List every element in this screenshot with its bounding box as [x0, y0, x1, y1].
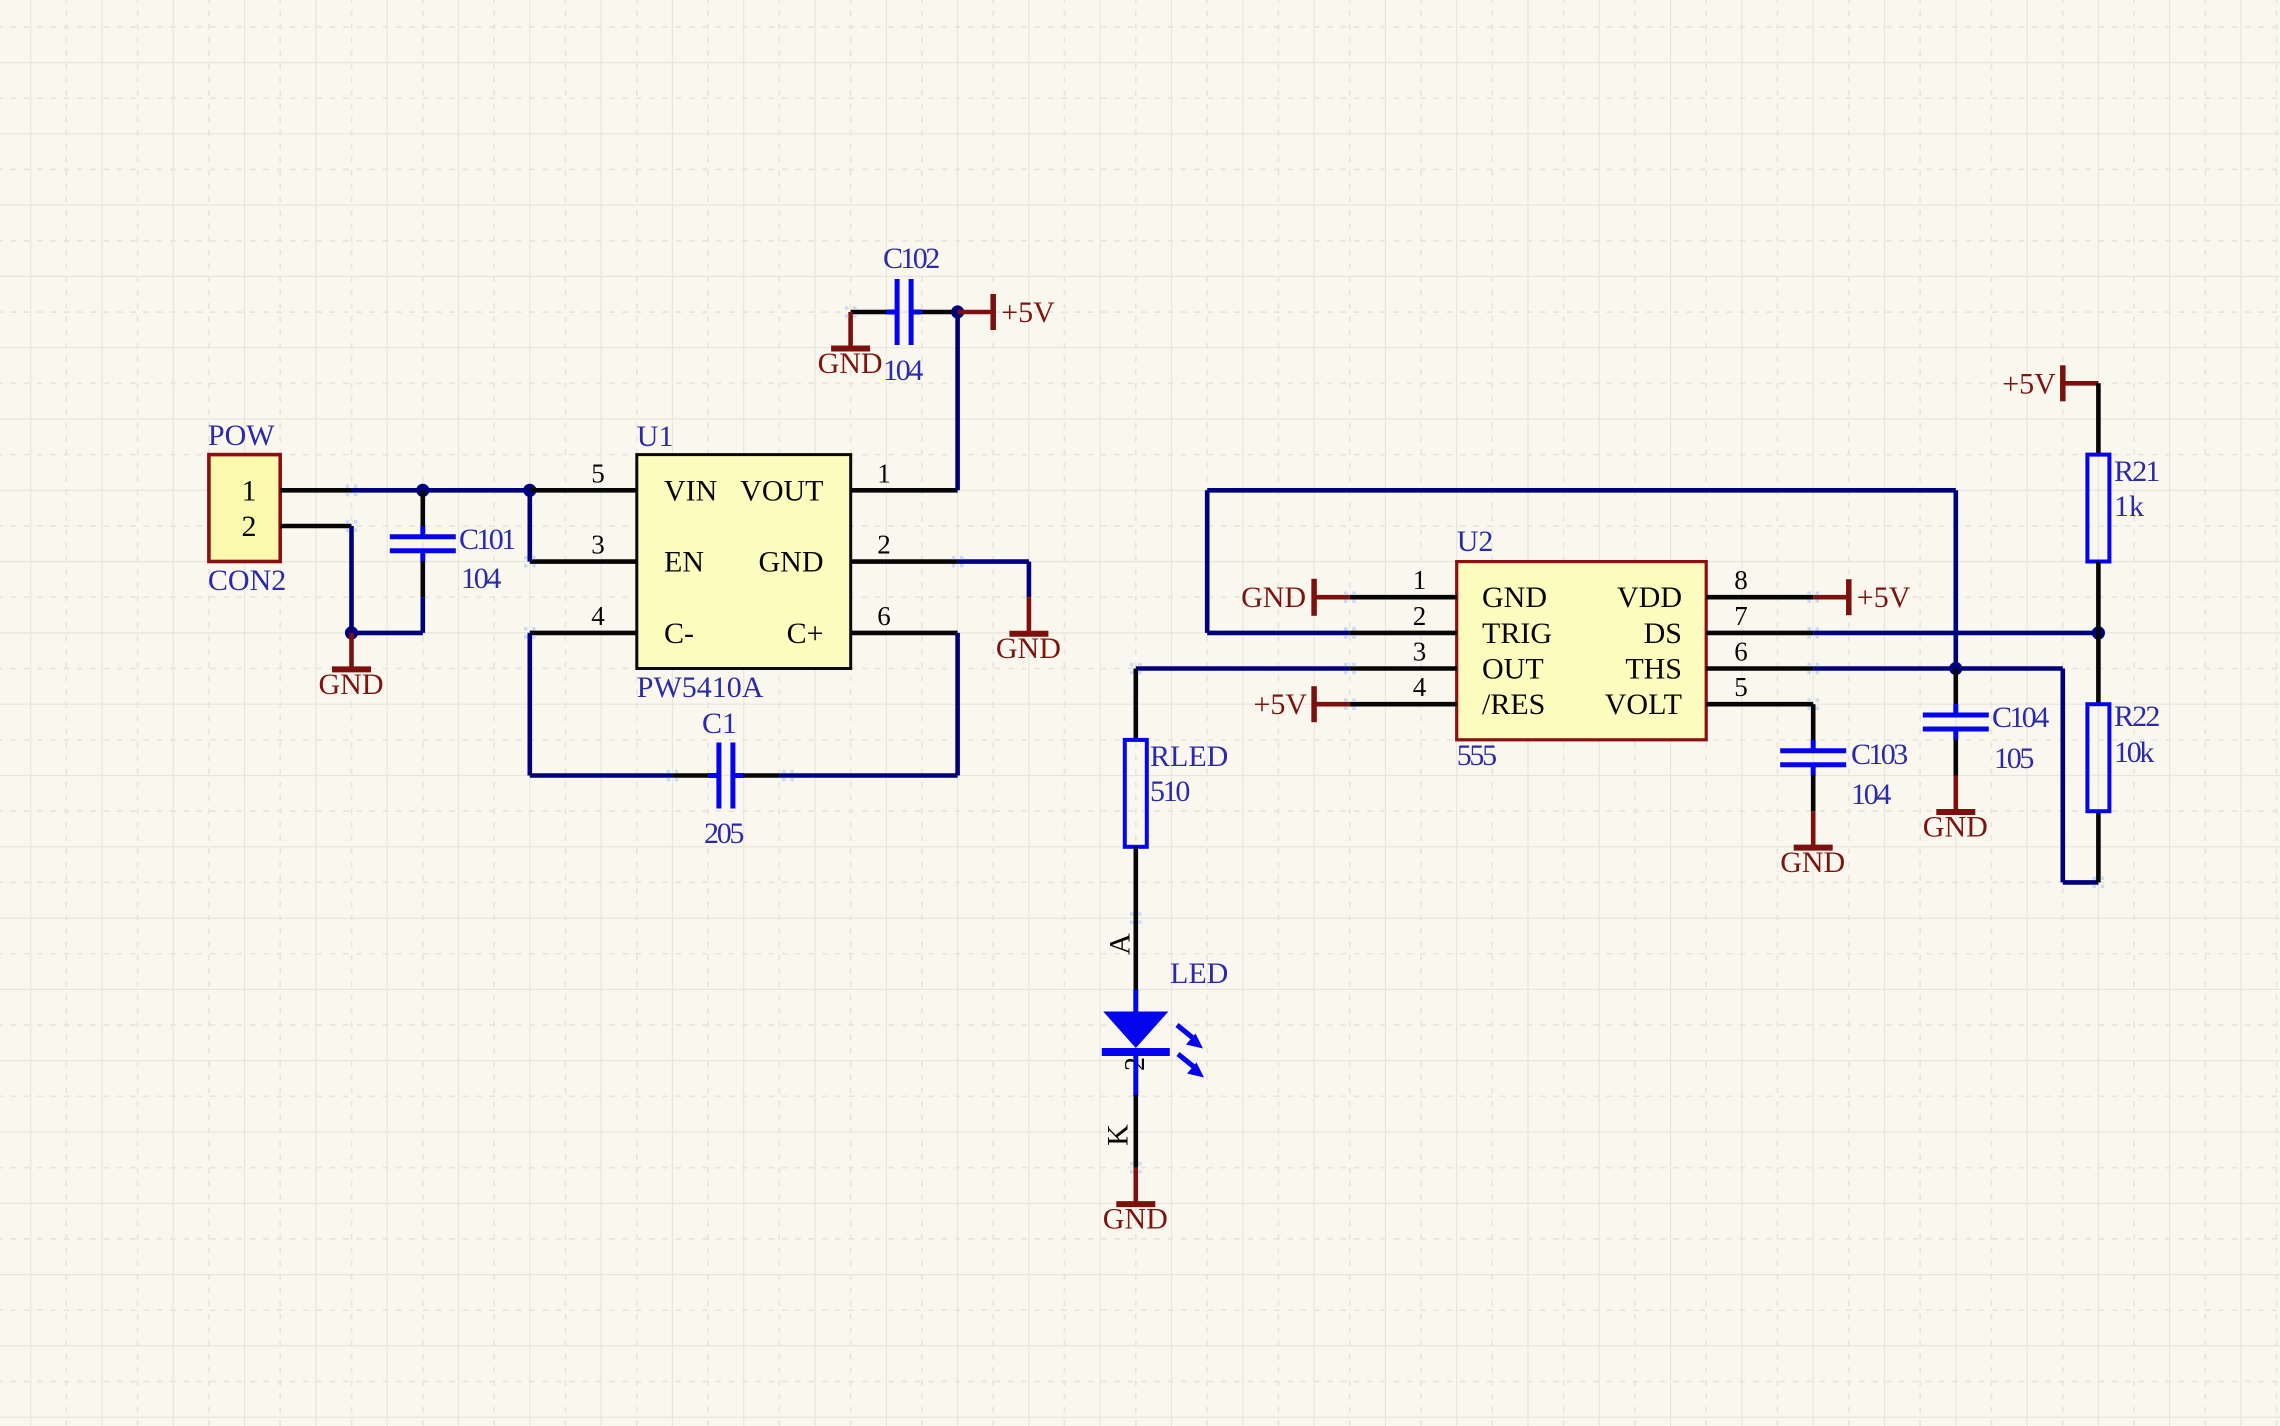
- svg-text:1k: 1k: [2114, 490, 2144, 523]
- resistor R22 body: [2087, 704, 2109, 811]
- LED light arrow 2: [1178, 1054, 1204, 1078]
- wire OUT elbow down to RLED: [1134, 669, 1139, 740]
- capacitor C102 right lead: [922, 310, 958, 315]
- svg-text:104: 104: [461, 562, 501, 595]
- wire LED cathode to GND: [1134, 1095, 1139, 1168]
- svg-text:1: 1: [877, 458, 891, 488]
- wire C1 left navy: [530, 773, 673, 778]
- capacitor C101 bottom lead: [420, 561, 425, 597]
- svg-text:K: K: [1102, 1124, 1135, 1146]
- LED cathode lead: [1133, 1056, 1138, 1096]
- svg-text:6: 6: [877, 601, 891, 631]
- svg-text:LED: LED: [1170, 957, 1228, 990]
- capacitor C102 left lead: [851, 310, 887, 315]
- wire EN vertical from VIN net: [527, 490, 532, 561]
- wire THS vertical down: [2061, 669, 2066, 883]
- node junction VOUT +5V: [951, 305, 964, 318]
- svg-text:104: 104: [1851, 778, 1891, 811]
- svg-text:VDD: VDD: [1617, 581, 1682, 614]
- wire THS horizontal: [1813, 666, 2063, 671]
- wire TRIG loop vertical left: [1205, 490, 1210, 633]
- svg-text:GND: GND: [759, 546, 824, 579]
- U2 pin 2 stub: [1350, 631, 1457, 636]
- U2 pin 8 stub: [1706, 595, 1813, 600]
- capacitor C104 plates: [1923, 704, 1989, 740]
- U1 pin 3 stub: [530, 559, 637, 564]
- svg-text:6: 6: [1734, 637, 1748, 667]
- capacitor C104 top lead: [1954, 669, 1959, 705]
- U1 pin 5 stub: [530, 488, 637, 493]
- wire TRIG horizontal to U2: [1207, 631, 1350, 636]
- svg-text:POW: POW: [208, 419, 275, 452]
- svg-text:C102: C102: [883, 242, 939, 275]
- svg-text:A: A: [1104, 933, 1137, 955]
- svg-text:CON2: CON2: [208, 564, 286, 597]
- node junction at GND net: [345, 626, 358, 639]
- U2 pin 1 stub: [1350, 595, 1457, 600]
- svg-text:RLED: RLED: [1150, 740, 1228, 773]
- svg-text:R22: R22: [2114, 700, 2159, 733]
- wire VOUT vertical: [955, 312, 960, 490]
- svg-text:2: 2: [877, 530, 891, 560]
- svg-text:205: 205: [704, 817, 743, 850]
- capacitor C102 plates: [886, 279, 922, 345]
- svg-text:8: 8: [1734, 565, 1748, 595]
- LED anode lead: [1133, 989, 1138, 1013]
- U2 pin 5 stub: [1706, 702, 1813, 707]
- capacitor C101 plates: [390, 526, 456, 562]
- wire C- vertical: [527, 633, 532, 776]
- wire POW pin2 down: [349, 526, 354, 633]
- svg-text:2: 2: [242, 510, 257, 543]
- wire THS bottom horizontal: [2063, 880, 2099, 885]
- svg-text:GND: GND: [818, 347, 883, 380]
- wire R22 bottom lead: [2096, 811, 2101, 882]
- svg-text:GND: GND: [319, 668, 384, 701]
- svg-text:510: 510: [1150, 775, 1189, 808]
- ground symbol below LED: [1103, 1168, 1168, 1236]
- svg-text:3: 3: [591, 530, 605, 560]
- svg-text:5: 5: [591, 458, 605, 488]
- wire C+ vertical: [955, 633, 960, 776]
- LED triangle: [1103, 1012, 1168, 1049]
- svg-text:105: 105: [1994, 742, 2033, 775]
- wire R21 top lead: [2096, 383, 2101, 454]
- svg-text:C104: C104: [1992, 701, 2049, 734]
- power +5V at U2 pin8: [1813, 579, 1911, 615]
- U1 pin 6 stub: [851, 631, 958, 636]
- svg-text:C1: C1: [702, 707, 737, 740]
- svg-text:GND: GND: [1241, 581, 1306, 614]
- wire U1 pin2 elbow down: [1027, 562, 1032, 598]
- wire TRIG loop horizontal top: [1207, 488, 1956, 493]
- capacitor C103 plates: [1780, 740, 1846, 776]
- wire RLED to LED anode: [1134, 847, 1139, 991]
- capacitor C103 bottom lead: [1811, 775, 1816, 811]
- ground symbol at U2 pin1: [1241, 579, 1350, 616]
- svg-text:7: 7: [1734, 601, 1748, 631]
- svg-text:3: 3: [1413, 637, 1427, 667]
- svg-text:/RES: /RES: [1482, 688, 1545, 721]
- svg-text:U1: U1: [637, 420, 674, 453]
- U1 pin 2 stub: [851, 559, 958, 564]
- wire TRIG loop vertical right: [1954, 490, 1959, 668]
- svg-text:10k: 10k: [2114, 736, 2154, 769]
- svg-text:PW5410A: PW5410A: [637, 671, 764, 704]
- svg-text:+5V: +5V: [1857, 581, 1911, 614]
- U1 pin 4 stub: [530, 631, 637, 636]
- svg-text:VOUT: VOUT: [740, 474, 823, 507]
- connector POW pin 1 stub: [280, 488, 351, 493]
- ground symbol below POW: [319, 633, 384, 701]
- svg-text:2: 2: [1413, 601, 1427, 631]
- wire R22 top lead: [2096, 633, 2101, 704]
- svg-text:R21: R21: [2114, 455, 2159, 488]
- capacitor C1 left lead: [672, 773, 708, 778]
- svg-text:C+: C+: [787, 617, 824, 650]
- svg-text:TRIG: TRIG: [1482, 617, 1552, 650]
- capacitor C1 right lead: [744, 773, 780, 778]
- wire DS horizontal: [1813, 631, 2098, 636]
- power +5V at C102: [958, 294, 1056, 330]
- U2 pin 3 stub: [1350, 666, 1457, 671]
- svg-text:U2: U2: [1457, 525, 1494, 558]
- ground symbol at U1 pin2: [996, 597, 1061, 665]
- svg-text:GND: GND: [996, 632, 1061, 665]
- wire U1 pin2 navy: [958, 559, 1029, 564]
- svg-text:GND: GND: [1482, 581, 1547, 614]
- svg-text:VOLT: VOLT: [1605, 688, 1682, 721]
- ground symbol at C104: [1923, 776, 1988, 844]
- svg-text:OUT: OUT: [1482, 653, 1544, 686]
- timer U2 body (555): [1457, 562, 1707, 740]
- capacitor C101 top lead: [420, 490, 425, 526]
- U2 pin 7 stub: [1706, 631, 1813, 636]
- svg-text:DS: DS: [1644, 617, 1682, 650]
- svg-text:+5V: +5V: [1254, 688, 1308, 721]
- ground symbol at C102: [818, 312, 883, 380]
- wire OUT horizontal: [1136, 666, 1350, 671]
- wire GND horizontal to C101: [352, 631, 423, 636]
- svg-text:GND: GND: [1923, 811, 1988, 844]
- power +5V above R21: [2002, 365, 2098, 401]
- svg-text:1: 1: [242, 474, 257, 507]
- U2 pin 4 stub: [1350, 702, 1457, 707]
- node junction THS C104: [1949, 662, 1962, 675]
- capacitor C101 bottom wire navy: [420, 597, 425, 633]
- U1 pin 1 stub: [851, 488, 958, 493]
- node junction at C101 top: [416, 484, 429, 497]
- connector POW body (CON2): [209, 455, 280, 562]
- resistor R21 body: [2087, 455, 2109, 562]
- resistor RLED body: [1125, 740, 1147, 847]
- svg-text:C103: C103: [1851, 738, 1907, 771]
- node junction DS R21 R22: [2092, 626, 2105, 639]
- svg-text:GND: GND: [1103, 1203, 1168, 1236]
- wire C1 right navy: [779, 773, 957, 778]
- wire net VIN horizontal: [352, 488, 530, 493]
- svg-text:4: 4: [1413, 672, 1427, 702]
- svg-text:VIN: VIN: [664, 474, 717, 507]
- wire VOLT elbow down: [1811, 704, 1816, 740]
- svg-text:EN: EN: [664, 546, 704, 579]
- LED cathode bar: [1102, 1048, 1170, 1056]
- svg-text:555: 555: [1457, 739, 1496, 772]
- svg-text:+5V: +5V: [2002, 367, 2056, 400]
- svg-text:104: 104: [883, 354, 923, 387]
- power +5V at U2 pin4: [1254, 686, 1350, 722]
- connector POW pin 2 stub: [280, 524, 351, 529]
- svg-text:5: 5: [1734, 672, 1748, 702]
- op-amp U1 body (PW5410A): [637, 455, 851, 669]
- svg-text:1: 1: [1413, 565, 1427, 595]
- wire endpoint markers: [346, 306, 2105, 1173]
- capacitor C104 bottom lead: [1954, 740, 1959, 776]
- wire R21 bottom lead: [2096, 562, 2101, 633]
- svg-text:THS: THS: [1625, 653, 1682, 686]
- svg-text:+5V: +5V: [1001, 296, 1055, 329]
- node junction at U1 pin5 branch: [523, 484, 536, 497]
- svg-text:C101: C101: [459, 523, 515, 556]
- svg-text:4: 4: [591, 601, 605, 631]
- ground symbol at C103: [1780, 811, 1845, 879]
- U2 pin 6 stub: [1706, 666, 1813, 671]
- LED light arrow 1: [1177, 1025, 1203, 1049]
- capacitor C1 plates: [708, 743, 744, 809]
- svg-text:C-: C-: [664, 617, 694, 650]
- svg-text:GND: GND: [1780, 846, 1845, 879]
